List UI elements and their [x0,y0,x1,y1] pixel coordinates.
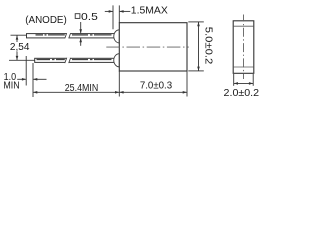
bottom lead L2 (cathode) extension/tail line [9,59,35,61]
bottom lead dome at body [114,54,120,67]
end view inner line top [233,25,254,27]
svg-text:2,54: 2,54 [10,42,30,53]
top lead plating dashes [36,34,112,36]
dimension 0.5 square symbol [75,14,80,19]
dimension 7.0±0.3 [119,71,187,97]
dimension 25.4MIN [33,71,119,97]
svg-text:25.4MIN: 25.4MIN [65,83,99,94]
svg-text:5.0±0.2: 5.0±0.2 [203,27,214,65]
top lead break [65,33,71,39]
svg-text:MIN: MIN [3,81,19,92]
end view body [233,21,254,74]
dimension 1.0MIN [17,56,46,97]
body centerline [106,46,189,48]
dimension 2.0±0.2 [234,74,254,86]
top lead dome at body [114,30,120,43]
svg-text:2.0±0.2: 2.0±0.2 [224,88,260,99]
svg-text:7.0±0.3: 7.0±0.3 [140,80,173,91]
end view centerline [243,15,245,80]
svg-text:0.5: 0.5 [81,12,98,23]
bottom lead plating dashes [37,59,112,61]
dimension 0.5 arrows [79,22,82,46]
dimension 1.5MAX extension lines [105,5,131,29]
dimension 5.0±0.2 [188,22,204,71]
end view inner line bottom [233,66,254,68]
svg-text:(ANODE): (ANODE) [25,15,67,26]
dimension 2.54 [16,35,19,60]
bottom lead L2 outline [35,58,115,62]
top lead L1 outline [27,34,116,38]
bottom lead break [65,58,71,64]
LED body (side view) [119,23,187,71]
top lead L1 (anode) extension/tail line [11,34,27,36]
svg-text:1.5MAX: 1.5MAX [131,6,168,17]
